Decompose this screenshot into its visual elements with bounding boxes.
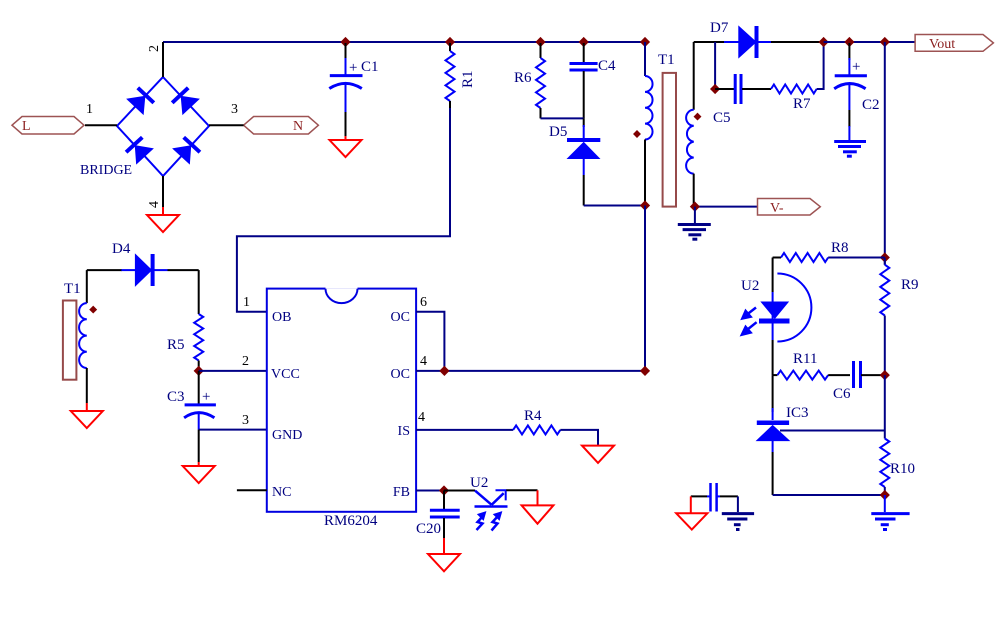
svg-text:R6: R6 xyxy=(514,70,532,86)
svg-text:NC: NC xyxy=(272,485,291,500)
svg-text:R5: R5 xyxy=(167,337,185,353)
wire IS pin to R4 xyxy=(416,429,513,431)
bridge pin 4 stub xyxy=(162,176,164,207)
junction at Vout rail xyxy=(880,37,890,47)
capacitor C5 xyxy=(715,74,771,104)
wire top primary rail xyxy=(163,41,645,43)
junction at C2 top xyxy=(844,37,854,47)
wire IC3 anode to rail bottom xyxy=(773,494,885,496)
light arrow 1 from LED xyxy=(742,308,757,320)
junction at VCC xyxy=(194,366,204,376)
svg-text:D4: D4 xyxy=(112,241,131,257)
resistor R6 xyxy=(536,43,545,118)
transformer T1 secondary winding xyxy=(686,42,694,207)
earth ground below secondary xyxy=(678,207,711,240)
svg-text:R9: R9 xyxy=(901,277,919,293)
polarity dot T1 primary xyxy=(633,130,641,138)
svg-text:U2: U2 xyxy=(741,278,759,294)
capacitor C3 xyxy=(184,371,216,430)
svg-text:4: 4 xyxy=(147,201,162,208)
svg-text:R7: R7 xyxy=(793,96,811,112)
junction at C1 top xyxy=(340,37,350,47)
ground (red) below C3 xyxy=(183,462,215,483)
junction at D5/T1 rail xyxy=(640,200,650,210)
svg-text:C1: C1 xyxy=(361,59,379,75)
svg-text:+: + xyxy=(852,59,860,75)
svg-text:C6: C6 xyxy=(833,386,851,402)
capacitor C2 xyxy=(834,43,867,127)
capacitor CY (between grounds) xyxy=(691,483,738,512)
svg-text:OB: OB xyxy=(272,310,291,325)
svg-text:VCC: VCC xyxy=(271,367,300,382)
resistor R11 xyxy=(773,371,850,380)
svg-text:R11: R11 xyxy=(793,351,817,367)
junction at rail bottom xyxy=(880,490,890,500)
wire Vout rail down xyxy=(884,42,886,265)
svg-text:T1: T1 xyxy=(64,281,81,297)
resistor R8 xyxy=(773,253,885,262)
light arrow 1 into U2 xyxy=(477,512,486,530)
resistor R5 xyxy=(194,314,203,371)
svg-text:4: 4 xyxy=(418,410,425,425)
svg-text:6: 6 xyxy=(420,295,427,310)
wire FB pin xyxy=(416,490,444,492)
svg-text:1: 1 xyxy=(243,295,250,310)
junction at FB xyxy=(439,485,449,495)
port N xyxy=(244,117,319,135)
earth ground right of CY xyxy=(722,496,754,529)
wire C3 bottom to ground xyxy=(198,430,200,462)
diode D5 xyxy=(567,118,600,205)
svg-text:3: 3 xyxy=(231,102,238,117)
junction at C4 top xyxy=(579,37,589,47)
transformer T1 aux core xyxy=(63,301,77,380)
bridge pin 2 stub xyxy=(162,42,164,77)
junction at OC pins xyxy=(439,366,449,376)
diode U2 LED xyxy=(759,302,790,375)
ground (red) below aux winding xyxy=(71,403,103,428)
wire OC pin4 to T1 rail xyxy=(416,370,645,372)
earth ground below R10 xyxy=(871,495,909,530)
wire secondary top to D7 xyxy=(694,41,725,43)
svg-text:V-: V- xyxy=(770,201,784,216)
ground (red) below C20 xyxy=(428,538,460,571)
wire FB to U2 collector xyxy=(444,490,475,492)
light arrow 2 from LED xyxy=(741,322,757,335)
port L xyxy=(12,117,84,135)
capacitor C6 xyxy=(854,361,885,388)
svg-text:N: N xyxy=(293,119,303,134)
svg-text:IC3: IC3 xyxy=(786,405,809,421)
junction at T1 top xyxy=(640,37,650,47)
svg-text:C2: C2 xyxy=(862,97,880,113)
svg-text:4: 4 xyxy=(420,354,427,369)
svg-text:C5: C5 xyxy=(713,110,731,126)
capacitor C1 xyxy=(329,43,362,136)
ground (red) left of CY xyxy=(676,496,707,529)
svg-text:FB: FB xyxy=(393,485,410,500)
wire R1 bottom to OB pin xyxy=(237,108,450,312)
svg-text:1: 1 xyxy=(86,102,93,117)
resistor R4 xyxy=(513,425,560,434)
bridge pin 1 stub xyxy=(85,124,117,126)
svg-text:L: L xyxy=(22,119,31,134)
ground (red) below C1 xyxy=(330,136,362,157)
junction at R8/R9 xyxy=(880,252,890,262)
diode D7 xyxy=(724,26,824,58)
wire R7 right to D7 cathode junction xyxy=(817,42,824,89)
svg-text:OC: OC xyxy=(391,310,410,325)
capacitor C4 xyxy=(570,43,598,118)
diode D4 xyxy=(121,254,198,286)
wire D4 to R5 xyxy=(198,270,200,314)
svg-text:D7: D7 xyxy=(710,20,729,36)
ground (red) at bridge pin 4 xyxy=(147,207,179,232)
bridge pin 3 stub xyxy=(209,124,244,126)
svg-text:2: 2 xyxy=(242,354,249,369)
svg-text:C20: C20 xyxy=(416,521,441,537)
wire T1 rail down to OC xyxy=(644,206,646,371)
transistor U2 (opto phototransistor) xyxy=(475,490,508,506)
polarity dot T1 secondary xyxy=(694,113,702,121)
transformer T1 core xyxy=(663,73,676,207)
port V- xyxy=(758,199,821,217)
resistor R10 xyxy=(880,375,889,495)
wire U2 LED branch top xyxy=(772,258,774,293)
svg-text:BRIDGE: BRIDGE xyxy=(80,163,132,178)
diode IC3 (TL431) xyxy=(757,408,789,495)
wire U2 LED to IC3 xyxy=(772,375,774,412)
wire D7 snubber left vertical xyxy=(714,42,716,89)
transformer T1 primary winding xyxy=(645,42,653,206)
svg-text:+: + xyxy=(349,60,357,76)
wire D7 junction to Vout xyxy=(824,41,916,43)
bridge diode top-right xyxy=(172,88,199,114)
opto arc U2 xyxy=(777,274,811,342)
svg-text:R1: R1 xyxy=(460,70,476,88)
op-amp U1 RM6204 IC body xyxy=(267,287,416,511)
bridge diode bottom-right xyxy=(173,137,200,163)
svg-text:Vout: Vout xyxy=(929,37,955,52)
wire U2 emitter to ground xyxy=(506,489,537,491)
transformer T1 aux winding xyxy=(79,270,87,403)
svg-text:C3: C3 xyxy=(167,389,185,405)
wire aux top to D4 xyxy=(87,269,122,271)
svg-text:R8: R8 xyxy=(831,240,849,256)
pin NC stub xyxy=(237,489,267,491)
svg-text:3: 3 xyxy=(242,413,249,428)
wire IC3 ref to rail xyxy=(780,430,885,432)
wire V- net xyxy=(694,206,758,208)
svg-text:D5: D5 xyxy=(549,124,567,140)
bridge BRIDGE diamond xyxy=(117,77,209,176)
bridge diode bottom-left xyxy=(126,137,153,163)
junction at OC/T1 rail xyxy=(640,366,650,376)
junction at snubber left xyxy=(710,84,720,94)
wire R4 to ground xyxy=(560,430,598,446)
svg-text:R10: R10 xyxy=(890,461,915,477)
ground (red) below U2 emitter xyxy=(522,490,554,523)
svg-text:IS: IS xyxy=(398,424,410,439)
wire D5 anode to T1 rail xyxy=(584,205,645,207)
junction at R6 top xyxy=(535,37,545,47)
svg-text:OC: OC xyxy=(391,367,410,382)
earth ground below C2 xyxy=(834,126,866,156)
capacitor C20 xyxy=(430,491,460,539)
resistor R9 xyxy=(880,258,889,376)
resistor R7 xyxy=(771,85,817,94)
resistor R1 xyxy=(446,43,455,109)
junction at R1 top xyxy=(445,37,455,47)
polarity dot T1 aux xyxy=(89,306,97,314)
bridge diode top-left xyxy=(127,88,154,114)
wire VCC pin xyxy=(199,370,267,372)
wire pin6 OC to OC4 xyxy=(416,312,444,371)
wire GND pin xyxy=(199,429,267,431)
svg-text:2: 2 xyxy=(147,45,162,52)
svg-text:R4: R4 xyxy=(524,408,542,424)
light arrow 2 into U2 xyxy=(492,512,502,531)
junction at secondary bottom xyxy=(690,202,700,212)
wire R6 bottom to C4/D5 node xyxy=(541,117,584,119)
junction at C6/rail xyxy=(880,370,890,380)
junction at D7 cathode xyxy=(819,37,829,47)
svg-text:+: + xyxy=(202,389,210,405)
svg-text:U2: U2 xyxy=(470,475,488,491)
port Vout xyxy=(915,35,993,53)
ground (red) below R4 xyxy=(582,446,614,463)
svg-text:C4: C4 xyxy=(598,58,616,74)
svg-text:GND: GND xyxy=(272,428,302,443)
svg-text:T1: T1 xyxy=(658,52,675,68)
svg-text:RM6204: RM6204 xyxy=(324,513,378,529)
